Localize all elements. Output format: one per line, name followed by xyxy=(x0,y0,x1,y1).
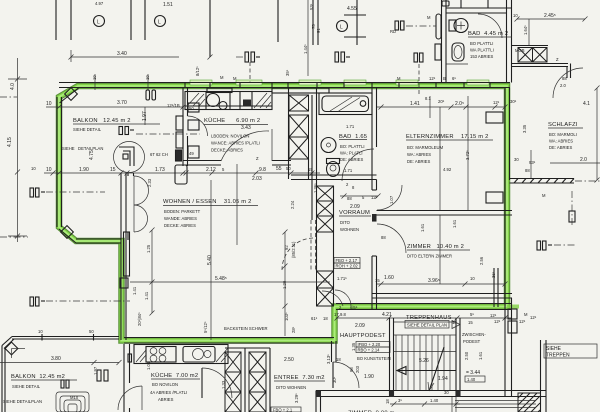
vorraum top wall xyxy=(291,175,377,180)
svg-text:1.40: 1.40 xyxy=(430,398,439,403)
siehe treppen box right xyxy=(544,344,597,358)
svg-text:3.80: 3.80 xyxy=(51,356,61,362)
svg-text:15: 15 xyxy=(468,320,473,325)
svg-text:49: 49 xyxy=(189,151,194,156)
svg-text:M: M xyxy=(220,75,224,80)
svg-text:6⁵: 6⁵ xyxy=(452,76,456,81)
svg-text:35⁵: 35⁵ xyxy=(285,69,290,76)
svg-text:M: M xyxy=(233,76,237,81)
svg-text:1.71: 1.71 xyxy=(346,124,355,129)
svg-text:DECKE: ABRIES: DECKE: ABRIES xyxy=(211,148,243,153)
svg-text:ENTREE 7.30 m2: ENTREE 7.30 m2 xyxy=(274,375,325,381)
window sill boxes below facade wall xyxy=(207,88,329,93)
wohnen interior dim lines xyxy=(210,180,212,340)
top right dimension 2.45 xyxy=(515,17,588,46)
svg-text:30⁵: 30⁵ xyxy=(510,99,517,104)
elternzimmer east wall (under green) xyxy=(505,88,510,309)
top facade wall double line xyxy=(59,83,510,88)
svg-text:WA: ABRIES: WA: ABRIES xyxy=(549,139,573,144)
diamond survey marker top-left xyxy=(65,88,78,101)
entree door leaf and arc xyxy=(332,362,334,388)
upper balcony rail left xyxy=(57,88,126,243)
svg-text:2.0: 2.0 xyxy=(580,157,587,163)
bad 4.45 wash basin xyxy=(452,43,464,61)
shaft crosshatch box A xyxy=(289,95,309,111)
svg-text:M10: M10 xyxy=(70,395,79,400)
kitchen west wall xyxy=(183,88,188,166)
svg-text:FBO + 2.17: FBO + 2.17 xyxy=(336,258,358,263)
radiator symbol balcony xyxy=(119,127,134,135)
svg-text:1.41: 1.41 xyxy=(132,286,137,295)
lower kitchen stove circles xyxy=(150,348,157,355)
top-left neighbour balcony dividers xyxy=(56,0,366,57)
svg-text:53⁵: 53⁵ xyxy=(309,3,314,10)
radiator lower balcony xyxy=(97,370,108,381)
svg-text:1.60: 1.60 xyxy=(384,275,394,281)
top dimension line 3.40 xyxy=(69,50,213,62)
svg-text:DITO WOHNEN: DITO WOHNEN xyxy=(276,385,306,390)
svg-text:75: 75 xyxy=(311,24,316,29)
kitchen west wall-side cupboard boxes xyxy=(175,103,199,184)
bathtub xyxy=(319,93,372,115)
svg-text:2.0⁵: 2.0⁵ xyxy=(455,101,464,107)
svg-text:1.97: 1.97 xyxy=(142,111,148,121)
shaft crosshatch box C xyxy=(289,137,309,159)
svg-text:5.26: 5.26 xyxy=(419,358,429,364)
svg-text:MOB: MOB xyxy=(515,48,525,53)
svg-text:HAUPTPODEST: HAUPTPODEST xyxy=(340,333,386,339)
svg-text:ZIMMER 10.40 m 2: ZIMMER 10.40 m 2 xyxy=(407,244,464,250)
svg-text:1.35: 1.35 xyxy=(351,342,356,351)
detail corner inside bubble xyxy=(119,147,134,166)
entree corridor shaft crosshatch columns xyxy=(225,352,266,412)
svg-text:1.01: 1.01 xyxy=(146,361,151,370)
diamond survey marker left bevel xyxy=(61,226,74,239)
svg-text:LBODEN: NOVILON: LBODEN: NOVILON xyxy=(211,134,249,139)
svg-text:5.48⁵: 5.48⁵ xyxy=(215,276,227,282)
wall under green: wohnen south (backstein) xyxy=(124,338,334,344)
svg-text:1.71: 1.71 xyxy=(344,168,353,173)
svg-text:2.50: 2.50 xyxy=(464,351,469,360)
svg-text:KÜCHE 7.00 m2: KÜCHE 7.00 m2 xyxy=(151,372,198,379)
svg-text:10: 10 xyxy=(31,166,36,171)
left outer dimension chain xyxy=(8,58,27,242)
shaft crosshatch box B xyxy=(289,115,309,137)
svg-text:BO: MARMOLI: BO: MARMOLI xyxy=(549,132,577,137)
svg-text:SIEHE: SIEHE xyxy=(546,346,562,352)
zimmer door arc xyxy=(377,224,406,253)
eltern vertical dim xyxy=(467,96,469,210)
lower kitchen hatch xyxy=(136,348,228,362)
svg-text:BAD 1.65: BAD 1.65 xyxy=(339,134,367,140)
svg-text:3.96⁵: 3.96⁵ xyxy=(428,278,440,284)
svg-text:SIEHE DETAIL PLAN: SIEHE DETAIL PLAN xyxy=(407,323,447,328)
wohnen west wall with balcony doors xyxy=(121,173,134,340)
svg-text:18: 18 xyxy=(385,399,390,404)
vorraum shaft crosshatch lower pair xyxy=(317,271,334,306)
lower balcony slab xyxy=(2,334,119,412)
radiator symbol top 4 xyxy=(414,53,423,62)
radiator schlafzimmer xyxy=(537,241,552,250)
stair direction arrow (pointing left) xyxy=(397,370,456,372)
boxed FBO bottom left of entree xyxy=(271,407,301,412)
svg-text:36⁵: 36⁵ xyxy=(491,271,496,278)
treppenhaus top dim xyxy=(335,316,513,321)
stairs enclosure walls xyxy=(390,298,512,397)
svg-text:12⁵: 12⁵ xyxy=(494,319,501,324)
svg-text:4.15: 4.15 xyxy=(7,137,13,147)
svg-text:L: L xyxy=(97,20,100,26)
svg-text:2.56: 2.56 xyxy=(479,256,484,265)
eltern top dim line xyxy=(377,96,508,284)
svg-text:1.61: 1.61 xyxy=(452,219,457,228)
svg-text:30: 30 xyxy=(514,157,519,162)
circled L marker 1 xyxy=(94,16,105,27)
svg-text:2.24: 2.24 xyxy=(290,200,295,209)
svg-text:DITO ELTERN ZIMMER: DITO ELTERN ZIMMER xyxy=(407,254,452,259)
door post rects right of treppenhaus xyxy=(508,309,517,319)
kitchen counter hatch xyxy=(187,93,271,108)
svg-text:88: 88 xyxy=(525,168,530,173)
green highlighted apartment boundary (outer dark) xyxy=(59,86,507,341)
bad 4.45 door arc (top) xyxy=(478,14,502,38)
svg-text:2.0: 2.0 xyxy=(560,83,566,88)
svg-text:L: L xyxy=(158,20,161,26)
svg-text:3.72⁵: 3.72⁵ xyxy=(465,150,470,160)
svg-text:1.90: 1.90 xyxy=(79,167,89,173)
svg-text:Z: Z xyxy=(556,57,559,62)
dashed door swing arc xyxy=(282,238,313,270)
zimmer dims xyxy=(377,282,508,287)
svg-text:SIEHE DETAILPLAN: SIEHE DETAILPLAN xyxy=(62,146,103,151)
svg-text:BO: MARMOLEUM: BO: MARMOLEUM xyxy=(407,145,444,150)
svg-text:DE: ABRIES: DE: ABRIES xyxy=(340,157,363,162)
svg-text:4.55: 4.55 xyxy=(347,6,357,12)
shaft side walls xyxy=(317,186,334,306)
svg-text:M: M xyxy=(524,312,528,317)
upper balcony dim line 3.70 xyxy=(46,105,186,126)
svg-text:12⁵: 12⁵ xyxy=(490,313,497,318)
svg-text:1.61: 1.61 xyxy=(420,223,425,232)
svg-text:M: M xyxy=(397,76,401,81)
svg-text:15: 15 xyxy=(375,278,380,283)
svg-text:5⁵/12⁵: 5⁵/12⁵ xyxy=(203,321,208,333)
svg-text:WA: ABRIES: WA: ABRIES xyxy=(407,152,431,157)
wohnen west window xyxy=(124,232,130,276)
svg-text:WOHNEN / ESSEN 31.05 m 2: WOHNEN / ESSEN 31.05 m 2 xyxy=(163,199,252,205)
kitchen counter band xyxy=(185,92,272,110)
circled L marker 3 xyxy=(337,21,348,32)
svg-text:ABRIES: ABRIES xyxy=(158,397,174,402)
svg-text:10: 10 xyxy=(38,329,43,334)
svg-text:VORRAUM: VORRAUM xyxy=(339,210,370,216)
svg-text:93⁵: 93⁵ xyxy=(529,160,536,165)
svg-text:BACKSTEIN SCHWER: BACKSTEIN SCHWER xyxy=(224,326,268,331)
facade window glazing panels (light green) xyxy=(190,80,489,85)
bad 4.45 small wall boxes xyxy=(435,1,449,60)
svg-text:10: 10 xyxy=(92,75,97,80)
svg-text:3.29⁵: 3.29⁵ xyxy=(294,393,299,403)
svg-text:50: 50 xyxy=(89,329,94,334)
svg-text:1.51: 1.51 xyxy=(163,2,173,8)
svg-text:3⁵: 3⁵ xyxy=(398,398,402,403)
svg-text:10: 10 xyxy=(46,167,52,173)
FBO height box xyxy=(334,258,360,269)
svg-text:18: 18 xyxy=(323,316,328,321)
svg-text:55: 55 xyxy=(276,166,282,172)
svg-text:BO NOVILON: BO NOVILON xyxy=(152,382,178,387)
svg-text:DE: ABRIES: DE: ABRIES xyxy=(407,159,430,164)
lower kitchen door arc xyxy=(201,368,203,398)
kitchen hob dark block xyxy=(243,100,251,107)
svg-text:1.71⁵: 1.71⁵ xyxy=(337,276,347,281)
svg-text:50: 50 xyxy=(189,106,194,111)
spiral heater detail xyxy=(56,392,89,412)
lower kitchen counters xyxy=(134,345,228,364)
svg-text:BO KUNSTSTEIN: BO KUNSTSTEIN xyxy=(357,356,391,361)
svg-text:M: M xyxy=(542,193,546,198)
svg-text:15: 15 xyxy=(110,167,116,173)
svg-text:17: 17 xyxy=(334,312,339,317)
bottom main wall band xyxy=(316,340,546,412)
svg-text:M: M xyxy=(427,15,431,20)
svg-text:B: B xyxy=(443,76,446,81)
svg-text:TREPPEN: TREPPEN xyxy=(546,353,570,359)
svg-text:4.0: 4.0 xyxy=(10,83,16,90)
svg-text:2.12: 2.12 xyxy=(206,167,216,173)
vorraum wide opening dashed xyxy=(311,220,316,271)
svg-text:WANDE: ABRIES: WANDE: ABRIES xyxy=(164,216,197,221)
svg-text:10: 10 xyxy=(470,276,475,281)
wall under green: treppenhaus north xyxy=(336,304,512,310)
vorraum west wall upper xyxy=(312,180,317,221)
green highlighted apartment boundary (bright core) xyxy=(59,86,507,341)
entree east wall xyxy=(332,341,337,362)
hatched wall block bottom right xyxy=(518,393,541,412)
vorraum shaft crosshatch upper pair xyxy=(317,186,334,232)
svg-text:WANCE: ABRIES /PLATLI: WANCE: ABRIES /PLATLI xyxy=(211,141,260,146)
kitchen sink basins xyxy=(207,94,220,107)
svg-text:2.03: 2.03 xyxy=(252,176,262,182)
svg-text:3.70: 3.70 xyxy=(117,100,127,106)
svg-text:203: 203 xyxy=(355,365,360,373)
svg-text:1.41: 1.41 xyxy=(410,101,420,107)
eltern bed rects xyxy=(486,112,503,123)
stair break diagonal xyxy=(429,347,444,391)
dark wall end fills xyxy=(316,391,321,398)
kitchen door arc to wohnen xyxy=(221,131,269,161)
svg-text:BALKON 12.45 m 2: BALKON 12.45 m 2 xyxy=(73,118,131,124)
schlafzimmer door arc xyxy=(553,68,583,98)
svg-text:WOHNEN: WOHNEN xyxy=(340,227,359,232)
circled L marker 2 xyxy=(155,16,166,27)
svg-text:DE: ABRIES: DE: ABRIES xyxy=(549,145,572,150)
svg-text:ROH + 2.02: ROH + 2.02 xyxy=(336,264,359,269)
eltern room west wall xyxy=(372,180,377,311)
svg-text:8/12⁵: 8/12⁵ xyxy=(195,66,200,76)
svg-text:RBO + 2.14: RBO + 2.14 xyxy=(358,348,381,353)
svg-text:SIEHE DETAIL: SIEHE DETAIL xyxy=(12,384,41,389)
svg-text:KÜCHE 6.90 m 2: KÜCHE 6.90 m 2 xyxy=(204,117,260,124)
svg-text:88: 88 xyxy=(347,196,352,201)
schlafzimmer wall stub right xyxy=(510,179,575,184)
bad 4.45 toilet xyxy=(454,19,468,33)
svg-text:DECKE: ABRIES: DECKE: ABRIES xyxy=(164,223,196,228)
bad 4.45 protruding room walls xyxy=(442,0,513,83)
svg-text:10: 10 xyxy=(46,101,52,107)
svg-text:3.43: 3.43 xyxy=(241,125,251,131)
bad door arc xyxy=(342,149,374,181)
eltern door arc xyxy=(377,185,402,210)
svg-text:BO PLATTLI: BO PLATTLI xyxy=(470,41,493,46)
svg-text:28⁵: 28⁵ xyxy=(291,326,296,333)
door arc wohnen-treppenhaus area xyxy=(322,291,343,306)
svg-text:1.44⁵: 1.44⁵ xyxy=(303,44,308,54)
green highlighted apartment boundary (mid) xyxy=(59,86,507,341)
svg-text:12⁵: 12⁵ xyxy=(429,76,436,81)
svg-text:153 ABRIES: 153 ABRIES xyxy=(470,54,493,59)
svg-text:1.40: 1.40 xyxy=(467,377,476,382)
svg-text:SCHLAFZI: SCHLAFZI xyxy=(548,122,578,128)
svg-text:20⁵|84⁵: 20⁵|84⁵ xyxy=(137,312,142,326)
svg-text:2.45⁵: 2.45⁵ xyxy=(544,13,556,19)
svg-text:18: 18 xyxy=(452,320,457,325)
kitchen south wall + door xyxy=(183,161,291,166)
svg-text:88: 88 xyxy=(381,235,386,240)
shaft column between kitchen and bad xyxy=(289,88,313,179)
svg-text:1.94: 1.94 xyxy=(438,376,448,382)
svg-text:= 3.44: = 3.44 xyxy=(466,370,480,376)
svg-text:ELTERNZIMMER 17.15 m 2: ELTERNZIMMER 17.15 m 2 xyxy=(406,134,489,140)
svg-text:4.1: 4.1 xyxy=(583,101,590,107)
svg-text:1.73: 1.73 xyxy=(155,167,165,173)
radiator symbol top 1 xyxy=(245,52,260,62)
svg-text:12⁵: 12⁵ xyxy=(519,319,526,324)
svg-text:FBO + 2.1: FBO + 2.1 xyxy=(273,408,293,412)
svg-text:1.41: 1.41 xyxy=(144,291,149,300)
svg-text:1.61: 1.61 xyxy=(478,351,483,360)
stair treads (vertical) xyxy=(394,322,457,390)
svg-text:L: L xyxy=(340,25,343,31)
svg-text:IFBO + 2.20: IFBO + 2.20 xyxy=(358,342,381,347)
svg-text:4A ABRIES /PLATLI: 4A ABRIES /PLATLI xyxy=(150,390,187,395)
svg-text:91: 91 xyxy=(316,28,321,33)
upper balcony lower dim line xyxy=(44,171,186,176)
svg-text:5⁵: 5⁵ xyxy=(470,312,474,317)
svg-text:SIEHE DETAIL: SIEHE DETAIL xyxy=(73,127,102,132)
kitchen dim line below xyxy=(183,171,320,176)
svg-text:20⁵: 20⁵ xyxy=(438,99,445,104)
radiator symbol top 2 xyxy=(335,52,350,62)
wohnen to entree door arc xyxy=(335,290,351,306)
svg-text:1.64⁵: 1.64⁵ xyxy=(523,25,528,35)
lower staircase lines bottom right xyxy=(452,397,536,412)
svg-text:2.50: 2.50 xyxy=(284,357,294,363)
svg-text:61⁵: 61⁵ xyxy=(311,316,318,321)
svg-text:BAD 4.45 m 2: BAD 4.45 m 2 xyxy=(468,31,508,37)
svg-text:1.36⁵: 1.36⁵ xyxy=(313,183,318,193)
lower kitchen sink xyxy=(193,349,204,360)
detail bubble circle xyxy=(114,142,145,173)
elternzimmer / zimmer divider wall xyxy=(377,211,513,216)
svg-text:9.8: 9.8 xyxy=(259,167,266,173)
svg-text:1.25: 1.25 xyxy=(146,244,151,253)
radiator symbol top 3 (left of bad 4.45) xyxy=(395,21,404,30)
svg-text:BO: PLATTLI: BO: PLATTLI xyxy=(340,144,365,149)
bad east wall xyxy=(372,88,377,183)
svg-text:6|5⁵: 6|5⁵ xyxy=(350,305,358,310)
svg-text:DITO: DITO xyxy=(340,220,351,225)
svg-text:10: 10 xyxy=(145,75,150,80)
svg-text:88: 88 xyxy=(562,76,567,81)
svg-text:4.92: 4.92 xyxy=(443,167,452,172)
radiator left wall 2 xyxy=(30,297,45,306)
svg-text:12⁵: 12⁵ xyxy=(493,100,500,105)
bad toilet xyxy=(327,162,340,177)
svg-text:3.13⁵: 3.13⁵ xyxy=(326,354,331,364)
svg-text:2.33: 2.33 xyxy=(147,178,152,187)
svg-text:2.09: 2.09 xyxy=(355,323,365,329)
svg-text:3.40: 3.40 xyxy=(117,51,127,57)
svg-text:PODEST: PODEST xyxy=(463,339,481,344)
radiator left wall 1 xyxy=(30,188,45,197)
svg-text:RD: RD xyxy=(390,29,396,34)
zimmer south wall xyxy=(372,294,512,299)
svg-text:1.20: 1.20 xyxy=(282,280,287,289)
svg-text:10: 10 xyxy=(513,13,518,18)
svg-text:1.90: 1.90 xyxy=(364,374,374,380)
svg-text:6Τ 62 CH: 6Τ 62 CH xyxy=(150,152,168,157)
crosshatch shaft right of bad 4.45 xyxy=(518,48,547,63)
svg-text:Z: Z xyxy=(256,156,259,161)
svg-text:4.97: 4.97 xyxy=(95,1,104,6)
kitchen west door arc xyxy=(188,116,208,136)
svg-text:3.35: 3.35 xyxy=(522,124,527,133)
svg-text:4.75: 4.75 xyxy=(89,150,95,160)
svg-text:30: 30 xyxy=(444,390,449,395)
svg-text:8.1: 8.1 xyxy=(425,96,431,101)
svg-text:12⁵: 12⁵ xyxy=(530,315,537,320)
svg-text:BODEN: PARKETT: BODEN: PARKETT xyxy=(164,209,201,214)
wall stub left of green right edge xyxy=(494,268,498,307)
svg-text:(85/2.11): (85/2.11) xyxy=(291,241,296,258)
svg-text:ZWISCHEN-: ZWISCHEN- xyxy=(462,332,486,337)
svg-text:4.21: 4.21 xyxy=(382,312,392,318)
svg-text:18: 18 xyxy=(336,357,341,362)
diamond marker lower balcony xyxy=(5,342,18,355)
svg-text:5.40: 5.40 xyxy=(207,255,213,265)
svg-text:WA PLATTLI: WA PLATTLI xyxy=(470,48,494,53)
balcony double door arcs xyxy=(134,176,149,205)
svg-text:WA: PLATLI: WA: PLATLI xyxy=(340,151,363,156)
green tail right of treppenhaus line xyxy=(507,305,519,309)
lower balcony door arc xyxy=(118,386,142,410)
bad middle: west wall xyxy=(316,88,318,179)
lower balcony dim line xyxy=(0,360,122,365)
svg-text:9.8: 9.8 xyxy=(340,312,346,317)
wall stub right of crosshatch xyxy=(512,46,571,79)
svg-text:1.33: 1.33 xyxy=(221,380,226,389)
svg-text:BALKON 12.45 m2: BALKON 12.45 m2 xyxy=(11,374,65,380)
lower kitchen east wall xyxy=(124,344,130,412)
bottom dim row under stairs xyxy=(390,402,460,407)
svg-text:12⁵/1B: 12⁵/1B xyxy=(167,103,180,108)
svg-text:1.07: 1.07 xyxy=(389,195,394,204)
bad wash basin xyxy=(321,138,336,153)
svg-text:SIEHE DETAILPLAN: SIEHE DETAILPLAN xyxy=(3,399,42,404)
